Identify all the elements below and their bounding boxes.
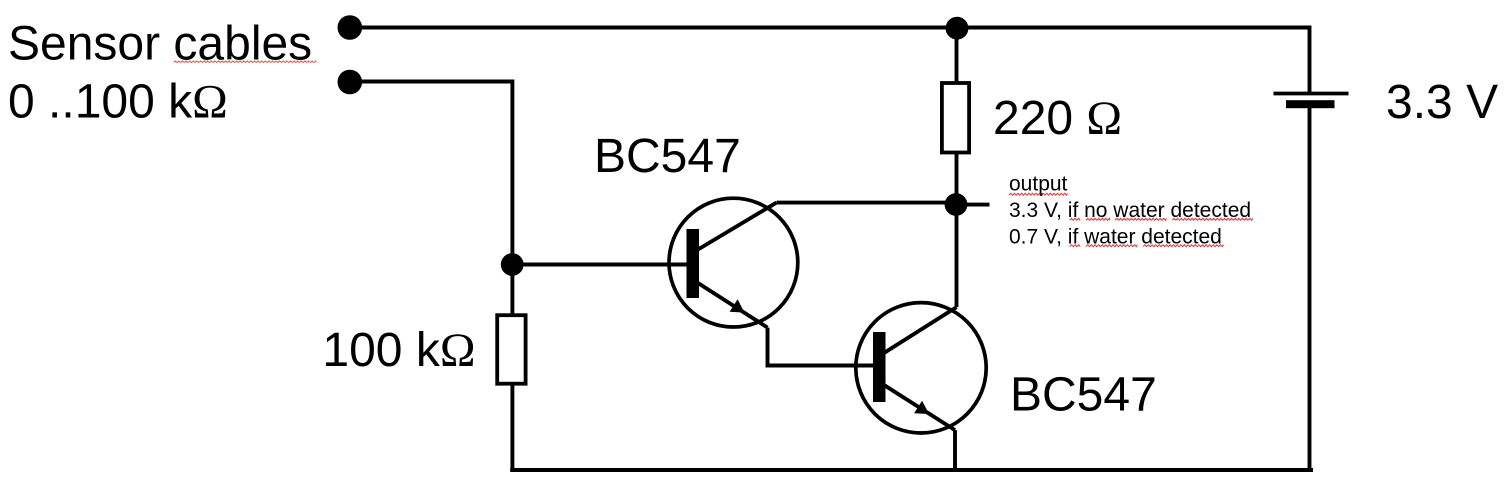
wire: output stub to the right of node	[956, 203, 990, 207]
svg-text:BC547: BC547	[594, 130, 741, 183]
transistor Q2: emitter arrowhead	[914, 401, 929, 414]
spellcheck squiggle under "water-3"	[1086, 245, 1137, 247]
spellcheck squiggle under "if-2"	[1070, 218, 1081, 220]
junction: output node	[945, 193, 968, 216]
svg-text:3.3 V: 3.3 V	[1386, 76, 1498, 129]
svg-text:output: output	[1009, 173, 1068, 196]
spellcheck squiggle under "output"	[1009, 193, 1068, 195]
battery B1: negative plate (short thick)	[1286, 100, 1335, 108]
transistor Q1: base bar	[687, 229, 700, 298]
junction: sensor / 100k / Q1 base	[501, 253, 524, 276]
transistor Q2 BC547: circle	[856, 303, 986, 433]
terminal dot: sensor cable lower	[338, 70, 363, 95]
wire: 220 ohm net vertical (supply to Q2 collector)	[955, 28, 959, 308]
transistor Q1 BC547: circle	[669, 198, 798, 327]
wire: base wire of Q1 from left node	[512, 263, 686, 267]
svg-text:100 kΩ: 100 kΩ	[322, 324, 475, 377]
spellcheck squiggle under "no-2"	[1086, 218, 1109, 220]
resistor R1 220 ohm	[942, 83, 969, 153]
spellcheck squiggle under "cables"	[174, 61, 317, 63]
svg-text:0 ..100 kΩ: 0 ..100 kΩ	[8, 75, 228, 128]
terminal dot: sensor cable upper	[338, 15, 363, 40]
wire: Q1 emitter link down and over to Q2 base	[768, 328, 874, 366]
wire: Q1 collector horizontal to output node	[777, 201, 958, 205]
battery B1: positive plate (long)	[1274, 92, 1349, 96]
svg-text:BC547: BC547	[1010, 369, 1157, 422]
spellcheck squiggle under "water-2"	[1115, 218, 1166, 220]
spellcheck squiggle under "if-3"	[1070, 245, 1081, 247]
transistor Q1: collector lead	[698, 203, 777, 250]
spellcheck squiggle under "detected-3"	[1143, 245, 1224, 247]
transistor Q1: emitter arrowhead	[730, 299, 745, 312]
spellcheck squiggle under "detected-2"	[1172, 218, 1253, 220]
transistor Q2: collector lead	[885, 307, 957, 353]
svg-text:220 Ω: 220 Ω	[993, 92, 1122, 145]
svg-text:Sensor cables: Sensor cables	[8, 18, 312, 71]
svg-text:0.7 V, if water detected: 0.7 V, if water detected	[1009, 226, 1222, 249]
transistor Q2: base bar	[873, 332, 886, 402]
resistor R2 100 kohm	[497, 315, 525, 384]
wire: sensor lower lead, left vertical through 100k resistor to bottom rail	[350, 82, 512, 472]
wire: bottom rail	[510, 468, 1313, 472]
wire: top rail from sensor terminal to battery + corner	[350, 28, 1310, 93]
transistor Q1: emitter lead	[698, 283, 768, 328]
junction: top rail / 220 ohm	[946, 17, 969, 40]
spellcheck artifact dot under "output"	[1040, 193, 1043, 196]
wire: battery negative down to bottom rail corner	[1308, 104, 1312, 471]
svg-text:3.3 V, if no water detected: 3.3 V, if no water detected	[1009, 199, 1251, 222]
transistor Q2: emitter lead	[885, 385, 956, 430]
wire: Q2 emitter vertical to bottom rail	[953, 430, 957, 472]
